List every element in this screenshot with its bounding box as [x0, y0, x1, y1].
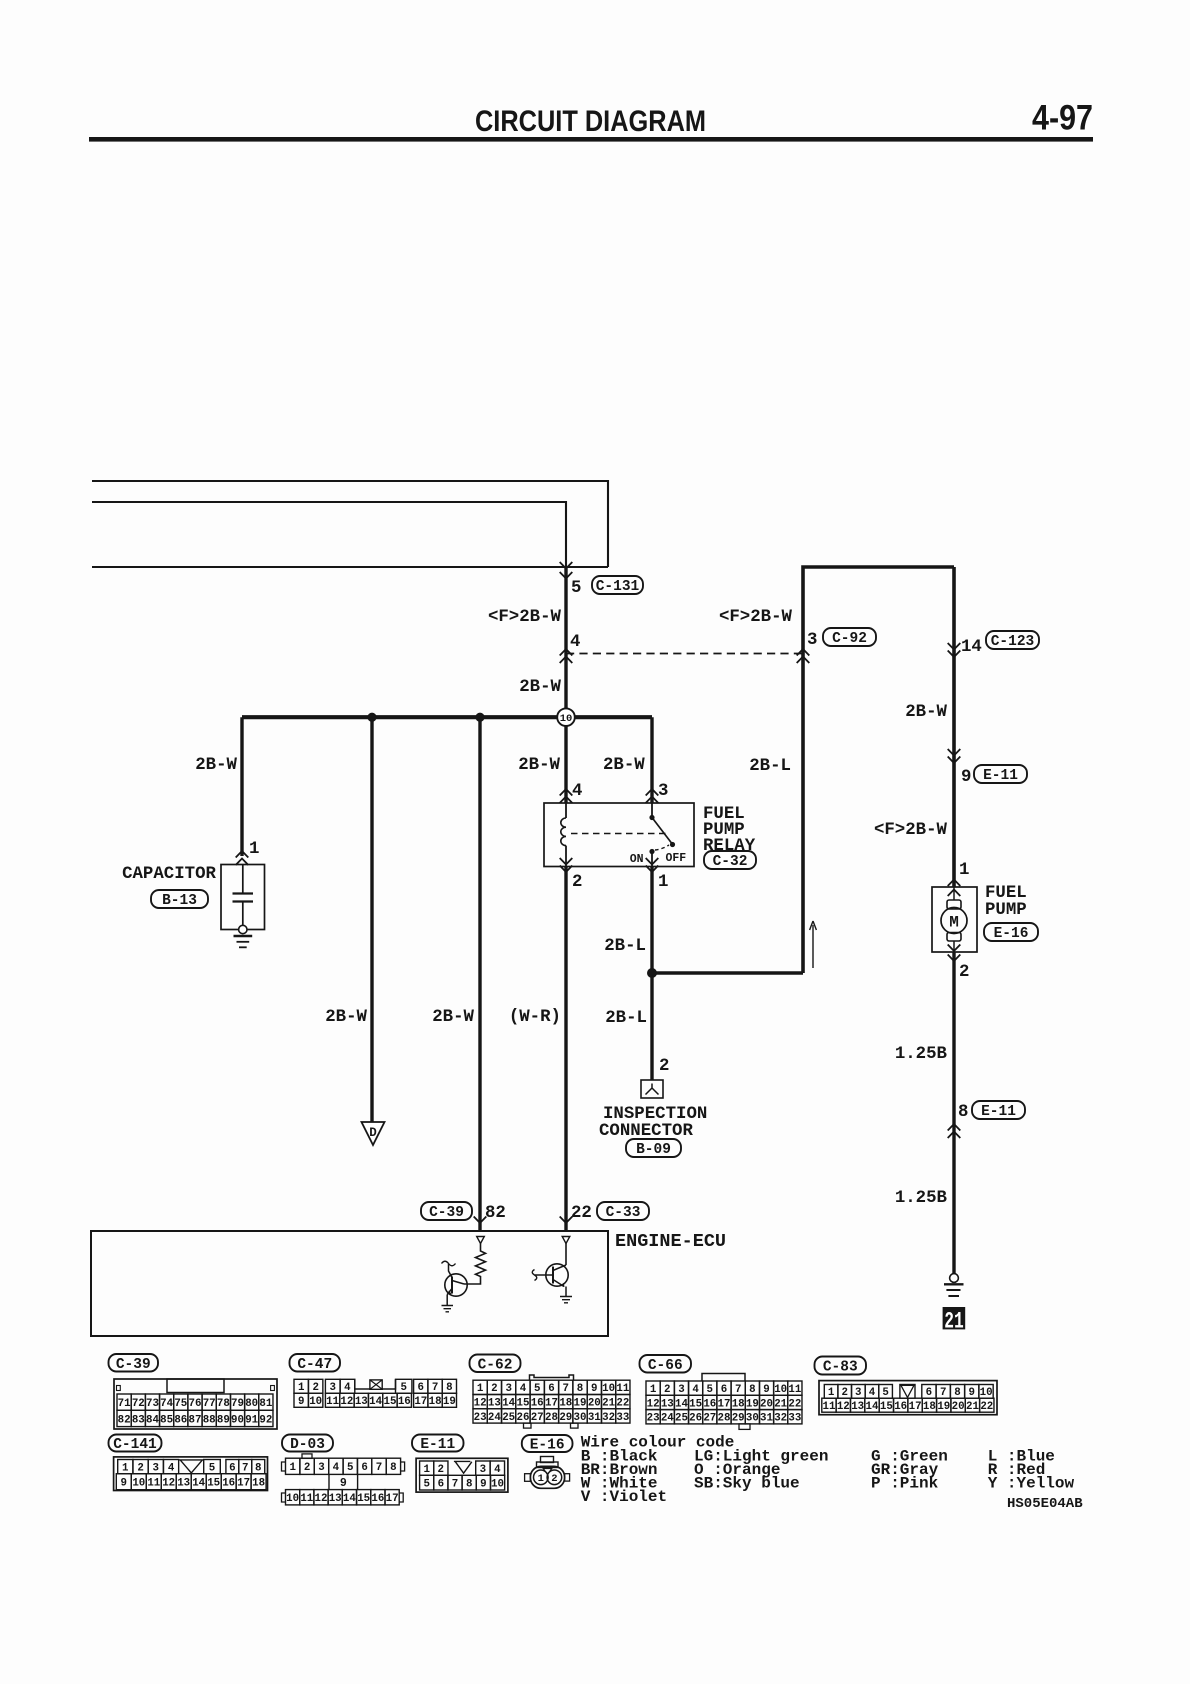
svg-text:11: 11: [326, 1396, 339, 1408]
svg-text:3: 3: [855, 1387, 861, 1399]
svg-text:2B-W: 2B-W: [603, 756, 645, 775]
wire top feed 3: [92, 566, 608, 568]
svg-text:12: 12: [474, 1398, 487, 1410]
svg-text:CAPACITOR: CAPACITOR: [122, 865, 216, 884]
ECU pin triangle 22: [562, 1237, 570, 1244]
svg-text:31: 31: [760, 1413, 773, 1425]
junction dot B: [475, 713, 484, 722]
svg-text:5: 5: [571, 579, 581, 598]
svg-text:18: 18: [559, 1398, 572, 1410]
svg-text:8: 8: [954, 1387, 960, 1399]
svg-text:9: 9: [763, 1384, 769, 1396]
svg-text:ENGINE-ECU: ENGINE-ECU: [615, 1231, 726, 1252]
svg-text:C-39: C-39: [429, 1205, 464, 1221]
svg-text:12: 12: [162, 1478, 175, 1490]
svg-text:19: 19: [746, 1398, 759, 1410]
svg-text:21: 21: [774, 1398, 787, 1410]
svg-text:25: 25: [675, 1413, 688, 1425]
connector ref C-123: [986, 631, 1039, 649]
svg-text:10: 10: [491, 1479, 504, 1491]
svg-text:1: 1: [423, 1464, 430, 1476]
svg-text:1: 1: [658, 873, 668, 892]
wire right riser 2B-L: [803, 567, 954, 973]
E-11 pin9 chevrons: [948, 757, 961, 764]
svg-text:C-62: C-62: [478, 1357, 513, 1373]
svg-text:V :Violet: V :Violet: [581, 1488, 667, 1506]
svg-text:7: 7: [735, 1384, 741, 1396]
E-11 key cell: [454, 1461, 472, 1473]
svg-text:16: 16: [703, 1398, 716, 1410]
svg-text:28: 28: [718, 1413, 731, 1425]
wire capacitor branch: [240, 717, 243, 856]
wire relay pin2 to ECU: [564, 867, 567, 1232]
svg-text:12: 12: [340, 1396, 353, 1408]
svg-text:79: 79: [231, 1398, 244, 1410]
relay switch arm (OFF): [652, 818, 672, 844]
svg-text:1: 1: [477, 1383, 484, 1395]
relay coil wire top: [565, 803, 567, 818]
svg-text:14: 14: [675, 1398, 688, 1410]
svg-text:2B-W: 2B-W: [195, 756, 237, 775]
svg-text:C-47: C-47: [297, 1357, 332, 1373]
connector table C-83: [815, 1357, 867, 1375]
relay ON/OFF dashed arc: [655, 845, 669, 850]
node 10 circle: [557, 708, 575, 726]
svg-text:9: 9: [340, 1477, 347, 1490]
svg-text:D-03: D-03: [290, 1437, 325, 1453]
svg-text:18: 18: [252, 1478, 265, 1490]
ground terminal circle: [950, 1274, 959, 1283]
header rule: [89, 137, 1093, 142]
svg-text:16: 16: [531, 1398, 544, 1410]
svg-text:4: 4: [520, 1383, 527, 1395]
svg-text:18: 18: [923, 1401, 936, 1413]
relay pin 3 chevrons: [646, 789, 659, 796]
svg-text:PUMP: PUMP: [985, 901, 1027, 920]
svg-text:14: 14: [192, 1478, 205, 1490]
relay C-32 box: [544, 803, 694, 867]
svg-text:15: 15: [207, 1478, 220, 1490]
svg-text:22: 22: [616, 1398, 629, 1410]
svg-text:84: 84: [146, 1414, 159, 1426]
wire bus to relay pin 3: [650, 717, 653, 803]
svg-text:7: 7: [563, 1383, 569, 1395]
svg-text:<F>2B-W: <F>2B-W: [874, 821, 948, 840]
svg-text:89: 89: [217, 1414, 230, 1426]
wire branch D: [370, 717, 373, 1122]
chevrons at dashed link left: [560, 649, 573, 656]
svg-text:4: 4: [692, 1384, 699, 1396]
svg-text:1: 1: [959, 861, 969, 880]
svg-text:27: 27: [703, 1413, 716, 1425]
svg-text:20: 20: [952, 1401, 965, 1413]
svg-text:E-11: E-11: [420, 1437, 455, 1453]
svg-text:C-141: C-141: [113, 1437, 157, 1453]
svg-text:3: 3: [505, 1383, 511, 1395]
connector symbol E-16: [522, 1435, 573, 1452]
fuel pump M1 box: [932, 887, 977, 952]
svg-text:9: 9: [591, 1383, 597, 1395]
svg-text:6: 6: [418, 1382, 424, 1394]
svg-text:28: 28: [545, 1412, 558, 1424]
svg-text:OFF: OFF: [666, 852, 687, 865]
svg-text:15: 15: [880, 1401, 893, 1413]
relay pin 4 chevrons: [560, 789, 573, 796]
svg-text:2: 2: [304, 1462, 310, 1474]
svg-text:3: 3: [678, 1384, 684, 1396]
svg-text:1.25B: 1.25B: [895, 1189, 948, 1208]
svg-text:7: 7: [242, 1463, 248, 1475]
svg-text:10: 10: [560, 713, 573, 725]
svg-text:20: 20: [588, 1398, 601, 1410]
svg-text:33: 33: [788, 1413, 801, 1425]
svg-text:83: 83: [132, 1414, 145, 1426]
svg-text:27: 27: [531, 1412, 544, 1424]
connector table D-03: [282, 1435, 333, 1452]
svg-text:7: 7: [376, 1462, 382, 1474]
svg-text:74: 74: [160, 1398, 173, 1410]
svg-text:17: 17: [909, 1401, 922, 1413]
svg-text:9: 9: [480, 1479, 486, 1491]
svg-text:7: 7: [452, 1479, 458, 1491]
E-11 pin8 chevrons: [948, 1124, 961, 1131]
svg-text:1: 1: [298, 1382, 305, 1394]
svg-text:2: 2: [841, 1387, 847, 1399]
svg-text:25: 25: [502, 1412, 515, 1424]
svg-text:15: 15: [357, 1493, 370, 1505]
svg-text:13: 13: [329, 1493, 342, 1505]
transistor Q2: [565, 1244, 567, 1266]
svg-text:15: 15: [689, 1398, 702, 1410]
svg-text:2: 2: [491, 1383, 497, 1395]
svg-text:3: 3: [330, 1382, 336, 1394]
svg-text:2: 2: [572, 873, 582, 892]
svg-text:C-83: C-83: [823, 1360, 858, 1376]
svg-text:6: 6: [438, 1479, 444, 1491]
connector table C-141: [109, 1435, 162, 1452]
ground ref 21 black tag: [943, 1307, 966, 1329]
svg-text:2: 2: [551, 1473, 557, 1485]
svg-text:5: 5: [707, 1384, 713, 1396]
svg-text:M: M: [949, 914, 959, 932]
svg-text:29: 29: [732, 1413, 745, 1425]
pump motor: [953, 887, 955, 900]
svg-text:1: 1: [249, 840, 259, 859]
svg-text:82: 82: [485, 1204, 506, 1223]
C-123 chevrons: [948, 651, 961, 658]
svg-text:75: 75: [174, 1398, 187, 1410]
pump exit chevrons: [948, 945, 961, 952]
relay coil wire bottom: [565, 846, 567, 867]
ECU entry chevron left: [474, 1217, 487, 1224]
svg-text:3: 3: [658, 782, 668, 801]
svg-text:92: 92: [259, 1414, 272, 1426]
svg-text:<F>2B-W: <F>2B-W: [719, 608, 793, 627]
svg-text:1: 1: [650, 1384, 657, 1396]
wire relay pin1 down: [650, 867, 653, 1081]
svg-text:17: 17: [237, 1478, 250, 1490]
svg-text:26: 26: [517, 1412, 530, 1424]
C-141 key cell: [179, 1460, 204, 1473]
svg-text:Y :Yellow: Y :Yellow: [988, 1475, 1075, 1493]
C-47 notch + key: [355, 1379, 396, 1389]
svg-text:13: 13: [851, 1401, 864, 1413]
capacitor ground circle: [239, 925, 247, 933]
svg-text:19: 19: [937, 1401, 950, 1413]
connector ref C-39 inline: [421, 1202, 472, 1220]
current direction arrow: [810, 921, 817, 968]
svg-text:B-13: B-13: [162, 893, 197, 909]
svg-text:20: 20: [760, 1398, 773, 1410]
connector ref E-16: [984, 923, 1038, 941]
svg-text:2B-L: 2B-L: [604, 937, 646, 956]
relay switch ON contact: [649, 849, 654, 854]
svg-text:16: 16: [894, 1401, 907, 1413]
svg-text:11: 11: [788, 1384, 801, 1396]
svg-text:18: 18: [732, 1398, 745, 1410]
svg-text:71: 71: [118, 1398, 131, 1410]
svg-text:16: 16: [398, 1396, 411, 1408]
svg-text:72: 72: [132, 1398, 145, 1410]
svg-text:29: 29: [559, 1412, 572, 1424]
svg-text:81: 81: [259, 1398, 272, 1410]
svg-text:9: 9: [969, 1387, 975, 1399]
svg-text:4: 4: [168, 1463, 175, 1475]
svg-text:D: D: [369, 1126, 377, 1140]
svg-text:P :Pink: P :Pink: [871, 1475, 939, 1493]
svg-text:14: 14: [369, 1396, 382, 1408]
svg-text:30: 30: [746, 1413, 759, 1425]
svg-text:C-92: C-92: [832, 631, 867, 647]
svg-text:ON: ON: [630, 853, 644, 866]
svg-text:17: 17: [414, 1396, 427, 1408]
svg-text:E-16: E-16: [530, 1438, 565, 1454]
ECU pin triangle 82: [477, 1237, 485, 1244]
C-92 chevrons: [797, 649, 810, 656]
svg-text:14: 14: [502, 1398, 515, 1410]
svg-text:33: 33: [616, 1412, 629, 1424]
svg-text:6: 6: [721, 1384, 727, 1396]
svg-text:16: 16: [371, 1493, 384, 1505]
junction dot 2B-L: [647, 968, 657, 978]
svg-text:5: 5: [882, 1387, 888, 1399]
svg-text:10: 10: [132, 1478, 145, 1490]
Q2 base lead: [535, 1274, 553, 1276]
svg-text:8: 8: [749, 1384, 755, 1396]
D-03 pin 9 band: [329, 1474, 358, 1489]
svg-text:82: 82: [118, 1414, 131, 1426]
svg-text:<F>2B-W: <F>2B-W: [488, 608, 562, 627]
svg-text:CIRCUIT DIAGRAM: CIRCUIT DIAGRAM: [475, 105, 706, 138]
ground symbol 21: [944, 1283, 964, 1285]
svg-text:12: 12: [315, 1493, 328, 1505]
pump entry chevrons: [948, 880, 961, 887]
capacitor symbol: [242, 865, 244, 894]
svg-text:86: 86: [174, 1414, 187, 1426]
svg-text:8: 8: [958, 1103, 968, 1122]
svg-text:23: 23: [647, 1413, 660, 1425]
svg-text:11: 11: [823, 1401, 836, 1413]
wire node10 to relay pin 4: [564, 726, 567, 803]
relay switch top lead: [651, 803, 653, 816]
svg-text:24: 24: [661, 1413, 674, 1425]
svg-text:2: 2: [438, 1464, 444, 1476]
connector table C-62: [470, 1355, 521, 1373]
svg-text:6: 6: [361, 1462, 367, 1474]
connector ref C-33 inline: [597, 1202, 649, 1220]
svg-text:3: 3: [480, 1464, 486, 1476]
svg-text:12: 12: [837, 1401, 850, 1413]
connector ref E-11 lower: [972, 1101, 1025, 1119]
connector table E-11: [412, 1435, 464, 1452]
svg-text:14: 14: [961, 638, 982, 657]
capacitor entry chevrons: [236, 851, 249, 858]
svg-text:24: 24: [488, 1412, 501, 1424]
svg-text:21: 21: [602, 1398, 615, 1410]
ECU entry chevron right: [560, 1217, 573, 1224]
svg-text:9: 9: [121, 1478, 127, 1490]
svg-text:2: 2: [137, 1463, 143, 1475]
svg-text:2B-W: 2B-W: [432, 1008, 474, 1027]
svg-text:SB:Sky blue: SB:Sky blue: [694, 1475, 800, 1493]
dashed link wire to C-92: [566, 653, 803, 655]
svg-text:13: 13: [661, 1398, 674, 1410]
svg-text:2B-W: 2B-W: [518, 756, 560, 775]
svg-text:4: 4: [570, 633, 580, 652]
connector table C-39: [109, 1354, 159, 1372]
svg-text:7: 7: [940, 1387, 946, 1399]
svg-text:32: 32: [774, 1413, 787, 1425]
svg-text:12: 12: [647, 1398, 660, 1410]
svg-text:31: 31: [588, 1412, 601, 1424]
svg-text:4: 4: [333, 1462, 340, 1474]
capacitor ground: [234, 935, 253, 937]
svg-text:10: 10: [980, 1387, 993, 1399]
connector ref C-92: [823, 628, 876, 646]
svg-text:23: 23: [474, 1412, 487, 1424]
wire pump to ground: [952, 952, 955, 1274]
off-page arrow D: [362, 1122, 385, 1145]
svg-text:3: 3: [807, 631, 817, 650]
svg-text:8: 8: [390, 1462, 396, 1474]
svg-text:19: 19: [574, 1398, 587, 1410]
svg-text:1.25B: 1.25B: [895, 1045, 948, 1064]
connector ref C-32: [704, 851, 756, 869]
bus wire: [242, 715, 652, 719]
svg-text:E-16: E-16: [994, 926, 1029, 942]
svg-text:21: 21: [944, 1308, 964, 1334]
connector ref C-131: [592, 576, 643, 594]
wire top feed 2: [92, 502, 566, 567]
svg-text:E-11: E-11: [983, 768, 1018, 784]
svg-text:4: 4: [494, 1464, 501, 1476]
svg-text:78: 78: [217, 1398, 230, 1410]
svg-text:11: 11: [616, 1383, 629, 1395]
relay dashed actuator link: [571, 833, 666, 835]
svg-text:10: 10: [602, 1383, 615, 1395]
svg-text:15: 15: [384, 1396, 397, 1408]
svg-text:80: 80: [245, 1398, 258, 1410]
svg-text:C-131: C-131: [596, 579, 640, 595]
wire main vertical 2B-W: [564, 567, 567, 709]
svg-text:76: 76: [189, 1398, 202, 1410]
svg-text:18: 18: [429, 1396, 442, 1408]
svg-text:8: 8: [255, 1463, 261, 1475]
svg-text:85: 85: [160, 1414, 173, 1426]
Q1 emitter ground: [446, 1295, 448, 1306]
svg-text:17: 17: [386, 1493, 399, 1505]
svg-text:1: 1: [828, 1387, 835, 1399]
svg-text:3: 3: [318, 1462, 324, 1474]
svg-text:13: 13: [488, 1398, 501, 1410]
svg-text:4: 4: [344, 1382, 351, 1394]
svg-text:C-33: C-33: [606, 1205, 641, 1221]
svg-text:9: 9: [298, 1396, 304, 1408]
svg-text:7: 7: [432, 1382, 438, 1394]
connector table C-47: [290, 1354, 341, 1372]
svg-text:22: 22: [571, 1204, 592, 1223]
svg-text:77: 77: [203, 1398, 216, 1410]
svg-text:C-39: C-39: [116, 1357, 151, 1373]
svg-text:17: 17: [545, 1398, 558, 1410]
wire junction to right riser: [652, 971, 803, 975]
svg-text:HS05E04AB: HS05E04AB: [1007, 1496, 1083, 1512]
svg-text:21: 21: [966, 1401, 979, 1413]
svg-text:11: 11: [147, 1478, 160, 1490]
svg-text:C-123: C-123: [991, 634, 1035, 650]
svg-text:2: 2: [664, 1384, 670, 1396]
svg-text:88: 88: [203, 1414, 216, 1426]
svg-text:9: 9: [961, 768, 971, 787]
svg-text:6: 6: [548, 1383, 554, 1395]
svg-text:4: 4: [572, 782, 582, 801]
svg-text:1: 1: [538, 1473, 544, 1485]
svg-text:1: 1: [122, 1463, 129, 1475]
connector table C-66: [640, 1355, 692, 1373]
svg-text:C-66: C-66: [648, 1358, 683, 1374]
wire branch C-39 pin 82: [478, 717, 481, 1231]
ENGINE-ECU box: [91, 1231, 608, 1336]
svg-text:73: 73: [146, 1398, 159, 1410]
capacitor C1 box: [221, 865, 265, 930]
svg-text:2B-L: 2B-L: [605, 1009, 647, 1028]
svg-text:5: 5: [423, 1479, 429, 1491]
resistor R1: [464, 1244, 486, 1285]
svg-text:14: 14: [343, 1493, 356, 1505]
svg-text:1: 1: [289, 1462, 296, 1474]
svg-text:30: 30: [574, 1412, 587, 1424]
svg-text:15: 15: [517, 1398, 530, 1410]
svg-text:17: 17: [718, 1398, 731, 1410]
svg-text:5: 5: [347, 1462, 353, 1474]
svg-text:2B-W: 2B-W: [905, 703, 947, 722]
svg-text:10: 10: [774, 1384, 787, 1396]
svg-text:22: 22: [980, 1401, 993, 1413]
svg-text:2: 2: [959, 963, 969, 982]
svg-text:6: 6: [926, 1387, 932, 1399]
svg-text:8: 8: [466, 1479, 472, 1491]
Q1 base squiggle: [442, 1261, 456, 1266]
connector ref B-13: [151, 890, 208, 908]
svg-text:4: 4: [869, 1387, 876, 1399]
inspection connector symbol: [641, 1080, 663, 1098]
Q2 emitter ground: [565, 1287, 567, 1297]
svg-text:(W-R): (W-R): [509, 1008, 561, 1027]
svg-text:14: 14: [866, 1401, 879, 1413]
svg-text:13: 13: [177, 1478, 190, 1490]
svg-text:2B-W: 2B-W: [519, 678, 561, 697]
connector crossing C-131 chevrons: [560, 562, 573, 569]
